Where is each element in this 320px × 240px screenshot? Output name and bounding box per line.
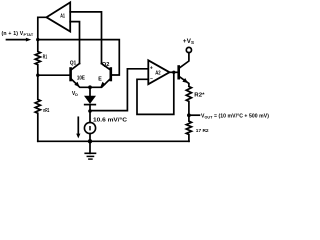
label i in current source [89,126,91,130]
svg-text:10E: 10E [77,76,85,82]
svg-text:R1: R1 [43,55,47,61]
wire diode node to A2 + input [90,69,148,111]
op-amp A1 [47,2,71,31]
wire bus (n+1)VPTAT to Q2 base [38,40,120,75]
resistor 17R2 [186,115,191,141]
resistor R1 [35,40,40,76]
supply terminal +VS [186,47,191,52]
node VOUT junction [187,113,191,117]
transistor Q3 [179,53,189,87]
svg-text:10.6 mV/°C: 10.6 mV/°C [93,118,127,124]
svg-text:E: E [98,76,102,82]
wire A2 - input feedback loop [137,72,174,114]
current source I [84,122,95,133]
wire A1 bottom input to Q1 collector [70,22,79,64]
svg-text:Q1: Q1 [70,61,77,67]
wire current source to ground bus [89,134,91,142]
node R1 nR1 Q1-base junction [36,74,39,77]
diode D1 [85,96,95,103]
node bus junction [36,38,39,41]
svg-text:R2*: R2* [194,92,204,98]
wire A1 top input to Q2 collector [70,12,101,64]
transistor Q1 [71,64,90,88]
op-amp A2 [148,60,169,84]
wire A1 output to node [38,17,47,39]
node ground junction [88,139,92,143]
ground symbol [89,141,91,153]
node diode cathode junction [88,109,92,113]
svg-text:−: − [150,76,153,82]
current direction arrow [77,117,79,134]
svg-text:+: + [150,66,153,72]
node A2 output junction [172,71,175,74]
svg-text:Q2: Q2 [102,62,110,68]
ground bus wire [38,140,189,142]
wire emitter node to diode [89,87,91,96]
svg-text:A2: A2 [155,70,161,76]
wire VOUT stub [189,114,200,116]
transistor Q2 [90,64,111,88]
node VD common emitter junction [88,85,92,89]
svg-text:A1: A1 [60,13,65,19]
label arrow (n+1)VPTAT [7,39,27,41]
resistor nR1 [35,75,40,141]
wire Q1 base from R1 node [38,74,71,76]
svg-text:17 R2: 17 R2 [196,128,209,134]
wire A2 output to Q3 base [170,71,178,73]
svg-text:nR1: nR1 [43,108,49,114]
resistor R2* [186,87,191,116]
